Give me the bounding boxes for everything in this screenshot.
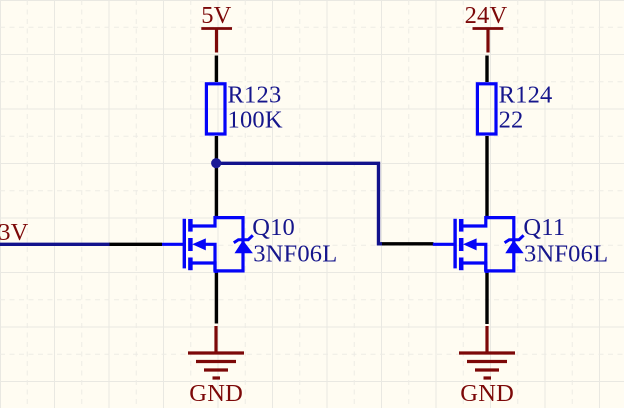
svg-text:3NF06L: 3NF06L [524, 240, 608, 267]
svg-text:3NF06L: 3NF06L [253, 240, 337, 267]
svg-text:22: 22 [499, 106, 524, 133]
svg-text:R123: R123 [228, 81, 282, 108]
svg-text:GND: GND [189, 380, 243, 407]
svg-text:R124: R124 [499, 81, 553, 108]
svg-text:3V: 3V [0, 219, 29, 246]
svg-text:24V: 24V [465, 2, 508, 29]
svg-text:Q10: Q10 [252, 214, 295, 241]
svg-text:GND: GND [460, 380, 514, 407]
svg-text:100K: 100K [228, 106, 283, 133]
svg-text:5V: 5V [201, 2, 231, 29]
svg-text:Q11: Q11 [523, 214, 565, 241]
